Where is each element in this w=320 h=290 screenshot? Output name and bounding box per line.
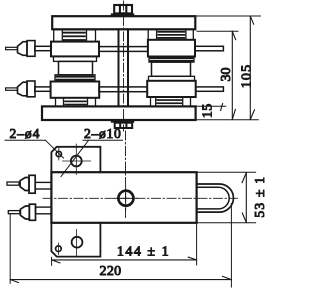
right stack middle block <box>152 62 191 76</box>
transducer body <box>51 172 196 223</box>
right stack lower electrode block <box>147 81 196 97</box>
extension 220 right <box>230 204 232 288</box>
vertical centerline <box>123 1 125 131</box>
dimension line 30 <box>232 31 235 119</box>
left stack lower electrode block <box>51 82 100 98</box>
extension body top right lower view <box>197 171 256 173</box>
top nut <box>114 5 132 13</box>
hole 4 bottom <box>56 243 62 255</box>
upper left plug wire <box>6 47 18 49</box>
extension 144 left <box>51 257 53 265</box>
left stack middle block <box>59 61 93 74</box>
dimension line 220 <box>10 276 231 282</box>
plug cone lower view 2 <box>20 206 29 219</box>
left terminal rod lower <box>35 87 51 91</box>
bottom plate <box>42 106 196 120</box>
svg-text:2–ø4: 2–ø4 <box>10 126 41 141</box>
plug body lower view 1 <box>29 175 35 193</box>
svg-text:53 ± 1: 53 ± 1 <box>252 176 267 218</box>
svg-text:2–ø10: 2–ø10 <box>84 126 121 141</box>
arrow for 15 <box>221 104 223 111</box>
lower left plug body <box>27 81 35 97</box>
hole 10 bottom <box>72 229 83 256</box>
top mounting bracket <box>51 147 100 172</box>
extension line bottom right <box>196 119 258 121</box>
left stack ceramic band <box>55 75 95 82</box>
plug wire lower view 2 <box>8 211 19 214</box>
horizontal centerline <box>43 197 238 199</box>
left terminal rod upper <box>35 46 51 50</box>
center hole <box>118 191 133 206</box>
dimension line 53 <box>242 172 246 222</box>
upper tie rod between stacks <box>99 47 148 52</box>
extension line at bottom plate top <box>196 105 226 107</box>
hole 10 top <box>63 144 91 175</box>
plug rod 1 <box>35 182 51 189</box>
plug cone lower view 1 <box>20 178 29 191</box>
dimension line 144 <box>52 257 197 263</box>
left stack upper electrode block <box>51 42 99 57</box>
plug rod 2 <box>36 207 52 214</box>
bottom washer <box>111 120 135 123</box>
svg-text:105: 105 <box>239 64 254 89</box>
svg-text:144 ± 1: 144 ± 1 <box>117 245 170 260</box>
svg-text:220: 220 <box>100 264 122 279</box>
leader 2-o10 <box>61 140 123 176</box>
dimension line 105 <box>250 16 254 120</box>
left stack lip <box>54 56 97 61</box>
left stack bottom discs <box>56 98 96 107</box>
U loop outer <box>197 184 234 212</box>
svg-text:15: 15 <box>200 103 215 118</box>
right stack top discs <box>148 30 193 40</box>
right stack upper electrode block <box>148 40 195 57</box>
lower tie rod between stacks <box>99 87 147 92</box>
svg-text:30: 30 <box>219 68 234 82</box>
extension 144 right <box>196 224 198 265</box>
right terminal rod upper <box>195 46 223 51</box>
hole 4 top <box>56 148 61 160</box>
right stack lip <box>149 76 195 81</box>
right stack bottom discs <box>151 97 191 106</box>
extension line under top plate <box>197 30 238 32</box>
upper left plug body <box>27 41 35 57</box>
top plate <box>52 16 195 29</box>
lower left plug wire <box>6 88 18 90</box>
right terminal rod lower <box>196 87 224 91</box>
bottom nut <box>115 123 133 128</box>
bottom mounting bracket <box>51 223 100 257</box>
extension body bottom right lower view <box>197 222 256 224</box>
right stack ceramic band <box>149 57 194 63</box>
extension line top right <box>196 15 261 17</box>
extension 220 left <box>9 214 11 283</box>
U loop inner <box>197 187 230 209</box>
leader 2-o4 <box>5 140 64 158</box>
upper left plug cone <box>18 42 28 56</box>
left stack top discs <box>54 30 96 42</box>
lower left plug cone <box>18 82 28 96</box>
plug wire lower view 1 <box>7 182 19 185</box>
top washer <box>111 13 135 16</box>
bolt shaft <box>119 29 129 106</box>
plug body lower view 2 <box>29 204 35 220</box>
